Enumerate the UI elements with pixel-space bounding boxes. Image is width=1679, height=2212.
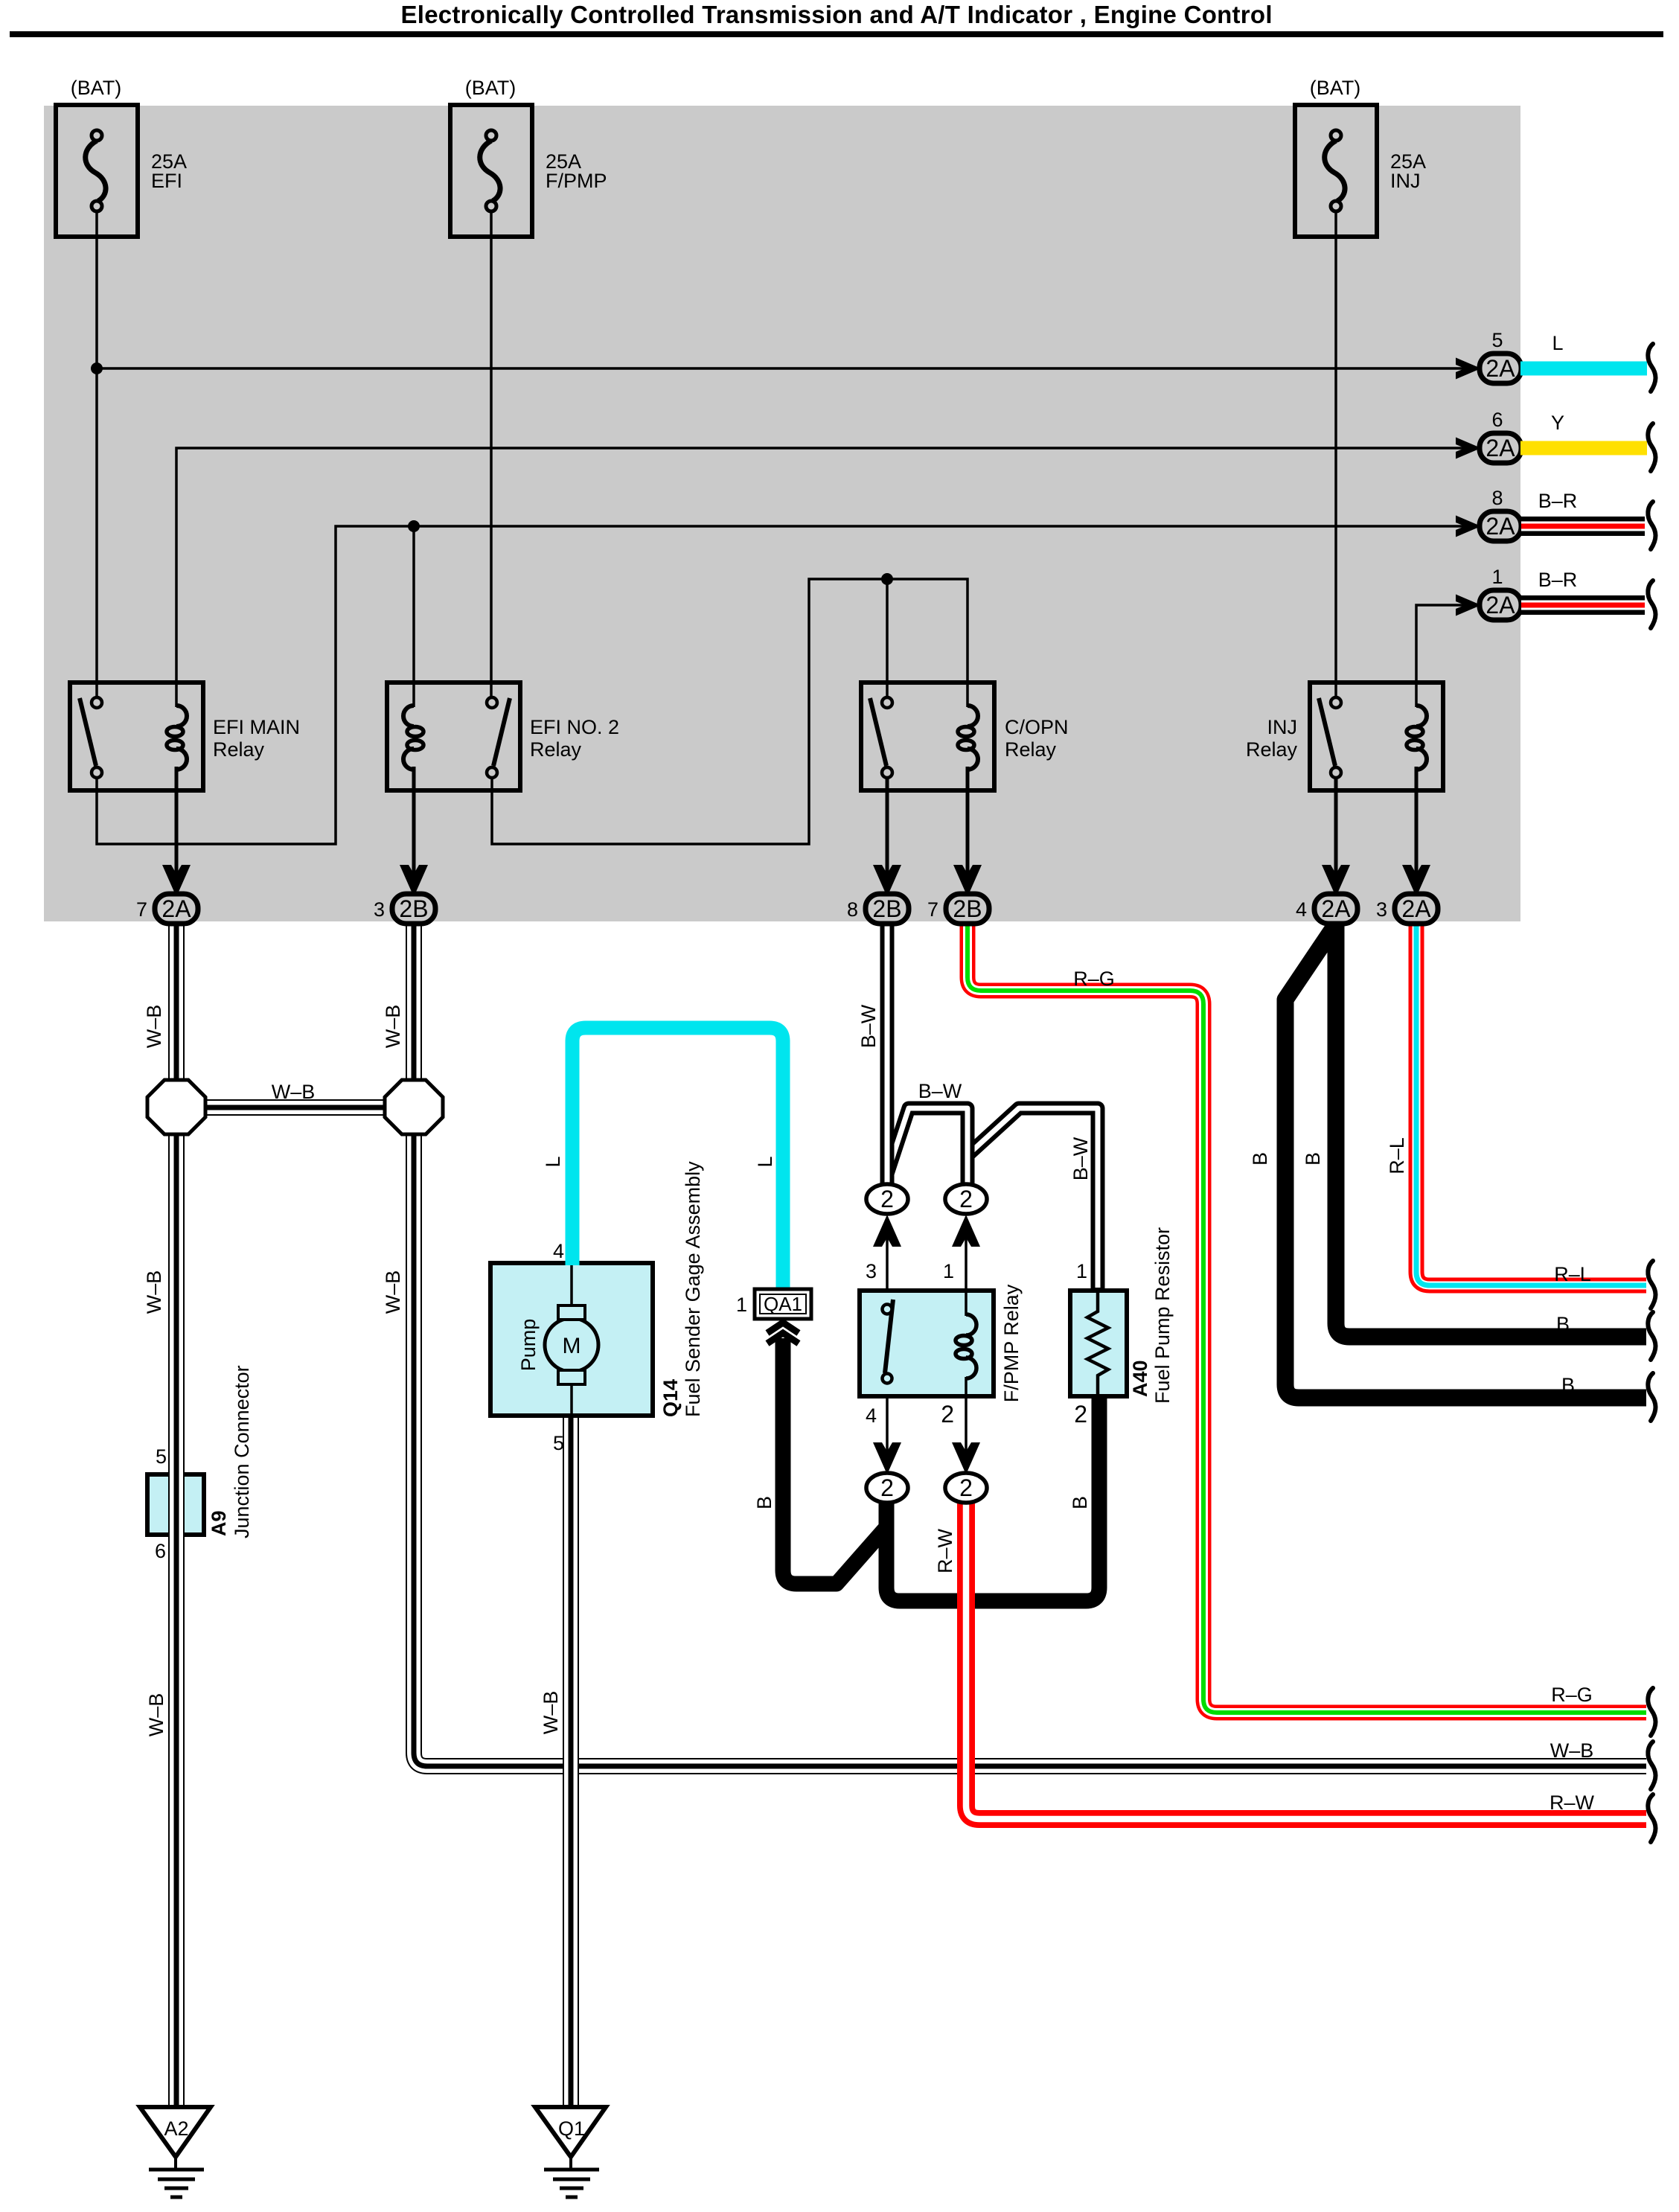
- svg-text:Fuel Pump Resistor: Fuel Pump Resistor: [1151, 1227, 1174, 1404]
- wire B-W from connector 8 2B down: [880, 923, 895, 1185]
- wire R-G from connector 7 2B to right edge: [968, 923, 1646, 1713]
- svg-text:F/PMP: F/PMP: [546, 170, 607, 192]
- svg-text:B: B: [1249, 1152, 1271, 1166]
- svg-text:6: 6: [155, 1540, 166, 1562]
- A40 resistor symbol: [1087, 1291, 1108, 1396]
- junction dot: [881, 573, 893, 585]
- svg-text:B: B: [1069, 1496, 1091, 1509]
- svg-text:6: 6: [1491, 409, 1503, 431]
- wire Y (yellow): [1520, 441, 1647, 455]
- svg-text:(BAT): (BAT): [465, 77, 517, 99]
- svg-text:EFI NO. 2: EFI NO. 2: [530, 716, 619, 738]
- connector 8 2B: [847, 865, 909, 924]
- svg-text:M: M: [563, 1334, 581, 1358]
- junction dot: [408, 520, 420, 532]
- curl W-B exit: [1648, 1742, 1655, 1789]
- svg-text:3: 3: [1376, 898, 1387, 921]
- svg-text:R–L: R–L: [1386, 1137, 1408, 1174]
- svg-text:7: 7: [136, 898, 147, 921]
- svg-text:(BAT): (BAT): [71, 77, 122, 99]
- svg-text:B–R: B–R: [1538, 490, 1578, 512]
- wire R-W from F/PMP pin 2 connector to right edge: [966, 1502, 1646, 1819]
- svg-text:2: 2: [880, 1186, 894, 1212]
- svg-text:Relay: Relay: [1246, 738, 1298, 761]
- wire: relay outputs down to bottom connectors: [175, 767, 179, 880]
- svg-text:L: L: [542, 1156, 564, 1167]
- svg-text:A2: A2: [164, 2117, 188, 2140]
- svg-text:F/PMP Relay: F/PMP Relay: [1000, 1284, 1023, 1402]
- svg-text:B–W: B–W: [857, 1004, 880, 1048]
- svg-text:3: 3: [866, 1260, 877, 1282]
- wire: branch to C/OPN switch: [886, 579, 889, 697]
- svg-text:2A: 2A: [1485, 592, 1515, 618]
- svg-text:Q14: Q14: [659, 1379, 682, 1417]
- connector 2 (F/PMP relay pin 2): [945, 1396, 987, 1503]
- svg-text:4: 4: [866, 1404, 877, 1427]
- A40 fuel pump resistor box: [1070, 1291, 1127, 1396]
- curl R-W exit: [1648, 1794, 1655, 1842]
- wire B-R: [1521, 517, 1645, 536]
- wire L (blue) from Q14 pin 4 to QA1: [572, 1028, 783, 1288]
- svg-text:R–G: R–G: [1551, 1684, 1593, 1706]
- svg-text:2: 2: [941, 1401, 954, 1428]
- wire B thick from F/PMP pin 4 connector to A40 pin 2: [886, 1396, 1099, 1601]
- wire L (blue): [1520, 362, 1647, 376]
- svg-text:Pump: Pump: [517, 1319, 540, 1372]
- svg-text:4: 4: [553, 1240, 564, 1262]
- svg-text:1: 1: [1491, 566, 1503, 588]
- connector 6 2A with Y wire: [1456, 409, 1656, 471]
- wire: INJ coil up to connector 1 2A: [1416, 605, 1465, 707]
- wire W-B from Q14 pin 5 to Q1 ground: [563, 1418, 579, 2107]
- svg-text:1: 1: [736, 1294, 747, 1316]
- svg-text:R–W: R–W: [1550, 1791, 1595, 1814]
- svg-text:Junction Connector: Junction Connector: [231, 1365, 253, 1538]
- svg-text:2: 2: [1074, 1401, 1087, 1428]
- svg-text:Relay: Relay: [1005, 738, 1057, 761]
- svg-text:C/OPN: C/OPN: [1005, 716, 1069, 738]
- svg-text:2: 2: [959, 1474, 973, 1501]
- wire B-W branch to F/PMP relay coil connector: [887, 1108, 968, 1185]
- wire R-L from connector 3 2A to right edge: [1416, 923, 1646, 1285]
- svg-text:2B: 2B: [872, 895, 901, 922]
- fuse 25A F/PMP: [450, 77, 607, 237]
- svg-text:B: B: [753, 1496, 775, 1509]
- svg-text:B: B: [1561, 1374, 1575, 1396]
- ground Q1: [535, 2107, 606, 2197]
- svg-text:2A: 2A: [1485, 435, 1515, 461]
- svg-text:W–B: W–B: [540, 1691, 562, 1735]
- relay EFI MAIN: [70, 683, 300, 790]
- svg-text:A9: A9: [208, 1510, 230, 1536]
- svg-text:W–B: W–B: [382, 1005, 404, 1049]
- wire B-R: [1521, 595, 1645, 615]
- connector 3 2B: [374, 865, 435, 924]
- svg-text:8: 8: [847, 898, 858, 921]
- wire B-W branch to A40 pin 1: [968, 1108, 1098, 1290]
- svg-text:W–B: W–B: [143, 1005, 165, 1049]
- QA1 connector: [736, 1289, 811, 1343]
- svg-text:1: 1: [943, 1260, 954, 1282]
- svg-text:2: 2: [880, 1474, 894, 1501]
- wire B thick branch to second right exit: [1285, 929, 1646, 1398]
- octagon junction (right): [385, 1080, 443, 1134]
- svg-text:5: 5: [553, 1432, 564, 1454]
- wire: branch to EFI NO.2 coil: [412, 526, 415, 707]
- svg-text:R–W: R–W: [934, 1528, 956, 1573]
- svg-text:L: L: [754, 1156, 776, 1167]
- svg-text:2B: 2B: [953, 895, 982, 922]
- Q14 fuel sender gage assembly box: [490, 1263, 653, 1416]
- connector 7 2A: [136, 865, 198, 924]
- svg-text:W–B: W–B: [382, 1270, 404, 1314]
- svg-text:A40: A40: [1129, 1360, 1151, 1397]
- wire: EFI fuse down to EFI MAIN relay: [95, 211, 98, 697]
- wire B thick from connector 4 2A to right edge: [1336, 923, 1646, 1337]
- connector 1 2A with B-R wire: [1456, 566, 1656, 628]
- svg-text:2A: 2A: [1401, 895, 1431, 922]
- wire: F/PMP fuse down to EFI NO.2 relay: [490, 211, 493, 697]
- svg-text:L: L: [1552, 332, 1563, 354]
- F/PMP relay box: [860, 1291, 994, 1396]
- connector 2 (F/PMP relay pin 4): [866, 1396, 908, 1503]
- svg-text:Fuel Sender Gage Assembly: Fuel Sender Gage Assembly: [682, 1161, 704, 1417]
- ground A2: [140, 2107, 211, 2197]
- svg-text:2A: 2A: [1485, 513, 1515, 540]
- wire W-B horizontal exit (from octagon column to right edge): [414, 923, 1646, 1766]
- svg-text:INJ: INJ: [1267, 716, 1298, 738]
- connector 8 2A with B-R wire: [1456, 487, 1656, 549]
- svg-text:B–W: B–W: [918, 1080, 962, 1102]
- F/PMP relay internals: [883, 1291, 977, 1396]
- A9 junction connector box: [147, 1474, 204, 1535]
- svg-text:3: 3: [374, 898, 385, 921]
- svg-text:2A: 2A: [161, 895, 191, 922]
- relay INJ: [1246, 683, 1443, 790]
- svg-text:R–G: R–G: [1073, 968, 1115, 990]
- wire: horizontal to connector 5 2A: [97, 367, 1465, 370]
- svg-text:5: 5: [156, 1445, 167, 1468]
- svg-text:EFI MAIN: EFI MAIN: [213, 716, 300, 738]
- svg-text:INJ: INJ: [1390, 170, 1421, 192]
- connector 4 2A: [1296, 865, 1357, 924]
- wire B thick from QA1 down and to F/PMP pin 4 column: [783, 1338, 886, 1584]
- svg-text:Relay: Relay: [530, 738, 582, 761]
- connector 2 (F/PMP relay pin 1): [945, 1184, 987, 1291]
- fuse 25A EFI: [56, 77, 187, 237]
- wire: EFI NO.2 switch out to C/OPN relay: [492, 579, 968, 844]
- svg-text:EFI: EFI: [151, 170, 182, 192]
- svg-text:1: 1: [1076, 1260, 1087, 1282]
- junction dot: [91, 362, 103, 374]
- svg-text:Q1: Q1: [558, 2117, 585, 2140]
- connector 5 2A with L wire: [1456, 329, 1656, 391]
- relay EFI NO. 2: [387, 683, 619, 790]
- curl R-G exit: [1648, 1688, 1655, 1736]
- wire: INJ fuse down to INJ relay: [1334, 211, 1337, 697]
- wire W-B left column (7 2A to A2 ground): [168, 923, 185, 2107]
- svg-text:B–W: B–W: [1069, 1137, 1092, 1180]
- svg-text:Y: Y: [1551, 412, 1564, 434]
- connector 3 2A: [1376, 865, 1438, 924]
- svg-text:W–B: W–B: [272, 1081, 316, 1103]
- svg-text:4: 4: [1296, 898, 1307, 921]
- svg-text:Relay: Relay: [213, 738, 265, 761]
- connector 2 (F/PMP relay pin 3): [866, 1184, 908, 1291]
- svg-text:8: 8: [1491, 487, 1503, 509]
- svg-text:2A: 2A: [1321, 895, 1351, 922]
- title rule: [10, 31, 1663, 37]
- curl R-L exit: [1648, 1261, 1655, 1308]
- svg-text:QA1: QA1: [764, 1293, 802, 1315]
- curl B exit 1: [1648, 1312, 1655, 1360]
- wire: EFI MAIN coil up and to connector 6 2A: [176, 448, 1465, 707]
- svg-text:2: 2: [959, 1186, 973, 1212]
- svg-text:R–L: R–L: [1554, 1263, 1591, 1285]
- curl B exit 2: [1648, 1373, 1655, 1421]
- svg-text:B–R: B–R: [1538, 569, 1578, 591]
- svg-text:Electronically Controlled Tran: Electronically Controlled Transmission a…: [401, 1, 1273, 28]
- wire W-B horizontal between octagon junctions: [201, 1099, 388, 1116]
- octagon junction (left): [147, 1080, 205, 1134]
- svg-text:5: 5: [1491, 329, 1503, 351]
- fuse 25A INJ: [1295, 77, 1426, 237]
- svg-text:B: B: [1302, 1152, 1324, 1166]
- svg-text:7: 7: [927, 898, 938, 921]
- connector 7 2B: [927, 865, 989, 924]
- wire: EFI MAIN switch out to connector 8 2A: [97, 526, 1465, 844]
- engine room main wiring shaded block: [44, 106, 1520, 921]
- relay C/OPN: [861, 683, 1069, 790]
- svg-text:2A: 2A: [1485, 355, 1515, 382]
- svg-text:(BAT): (BAT): [1310, 77, 1361, 99]
- svg-text:W–B: W–B: [145, 1693, 167, 1737]
- svg-text:W–B: W–B: [143, 1270, 165, 1314]
- svg-text:2B: 2B: [399, 895, 428, 922]
- svg-text:W–B: W–B: [1550, 1739, 1594, 1762]
- svg-text:B: B: [1556, 1313, 1570, 1335]
